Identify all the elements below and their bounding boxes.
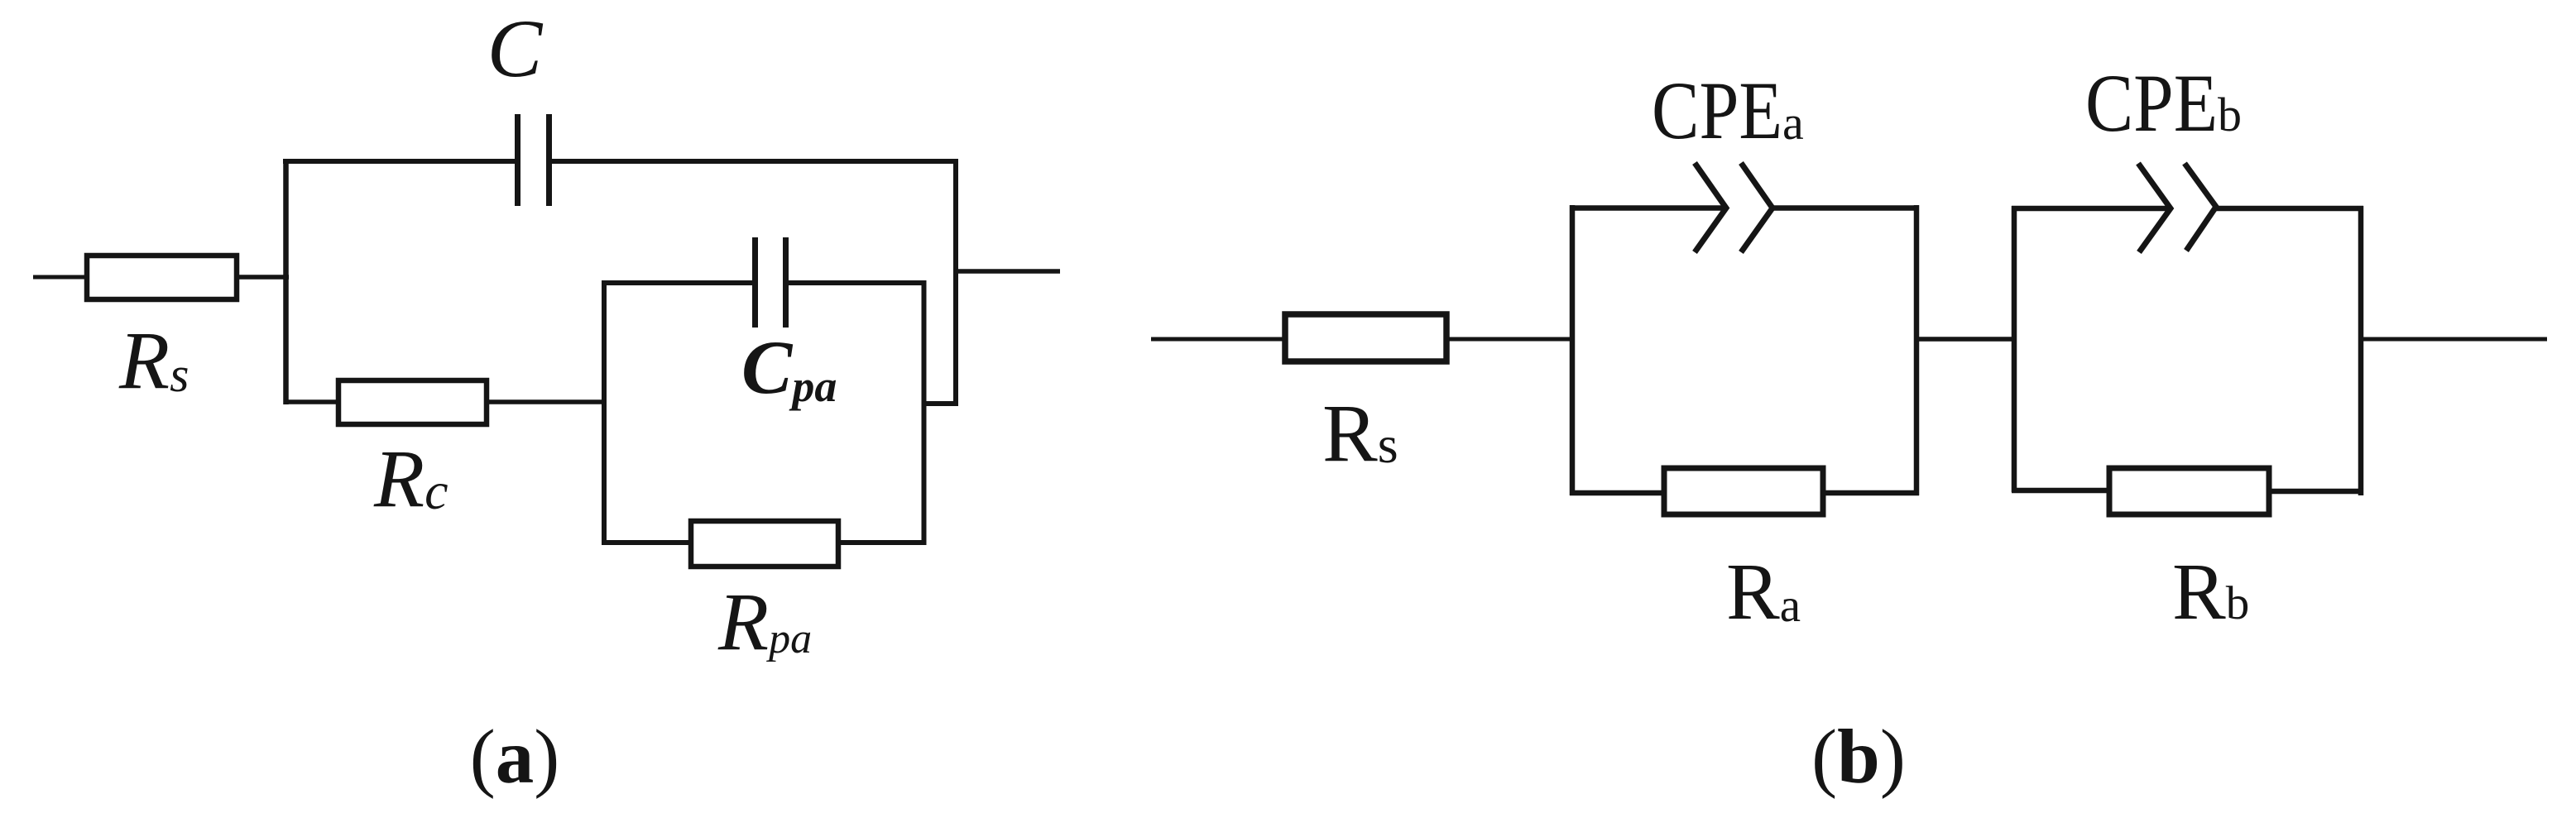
wire: Rs to node A: [237, 275, 289, 280]
wire: jog joining right verticals (a): [922, 401, 958, 406]
wire: Rs to box a: [1446, 337, 1575, 342]
resistor Rc: [338, 380, 487, 424]
wire: right vertical of outer loop (a): [953, 159, 958, 406]
wire: box a to box b: [1916, 337, 2017, 342]
wire: box b bottom, right segment: [2269, 489, 2363, 495]
wire: box a right vertical: [1914, 205, 1920, 495]
wire: box a left vertical: [1570, 205, 1576, 495]
svg-text:(a): (a): [470, 715, 559, 800]
wire: box b bottom, left segment: [2012, 488, 2109, 494]
wire: inner box bottom, right segment (a): [838, 540, 926, 545]
resistor Rs (panel b): [1285, 314, 1446, 361]
wire: box a bottom, left segment: [1570, 490, 1664, 496]
wire: box b top, left segment: [2012, 206, 2171, 212]
wire: box a top, right segment: [1772, 205, 1919, 211]
CPEb element (double chevron): [2138, 164, 2216, 253]
wire: box b top, right segment: [2216, 206, 2363, 212]
wire: top branch, right segment (a): [552, 159, 958, 164]
svg-text:(b): (b): [1811, 715, 1906, 800]
wire: node A to Rc: [285, 399, 338, 404]
wire: box b right vertical: [2358, 206, 2364, 495]
svg-text:CPEa: CPEa: [1652, 65, 1804, 156]
capacitor Cpa: [756, 237, 786, 328]
svg-text:C: C: [487, 2, 544, 94]
node A: left vertical wire (a): [283, 159, 289, 404]
CPEa element (double chevron): [1695, 163, 1772, 252]
wire: inner box left vertical (a): [602, 280, 607, 545]
resistor Rb: [2109, 468, 2269, 514]
wire: inner box top, right segment (a): [789, 280, 926, 285]
wire: output lead (a): [956, 269, 1060, 274]
wire: input lead of panel (b): [1151, 337, 1288, 342]
capacitor C: [518, 114, 549, 206]
wire: output lead of panel (b): [2361, 337, 2547, 342]
resistor Rpa: [691, 521, 838, 567]
wire: box a bottom, right segment: [1823, 490, 1919, 496]
wire: inner box right vertical (a): [922, 280, 927, 545]
wire: box a top, left segment: [1570, 205, 1726, 211]
resistor Ra: [1664, 468, 1823, 514]
wire: top branch, left segment (a): [283, 159, 515, 164]
wire: Rc to inner box (node B): [487, 399, 607, 404]
wire: input lead of panel (a): [33, 275, 89, 280]
wire: inner box bottom, left segment (a): [602, 540, 691, 545]
resistor Rs (panel a): [87, 256, 237, 299]
wire: inner box top, left segment (a): [602, 280, 752, 285]
wire: box b left vertical: [2012, 206, 2017, 492]
